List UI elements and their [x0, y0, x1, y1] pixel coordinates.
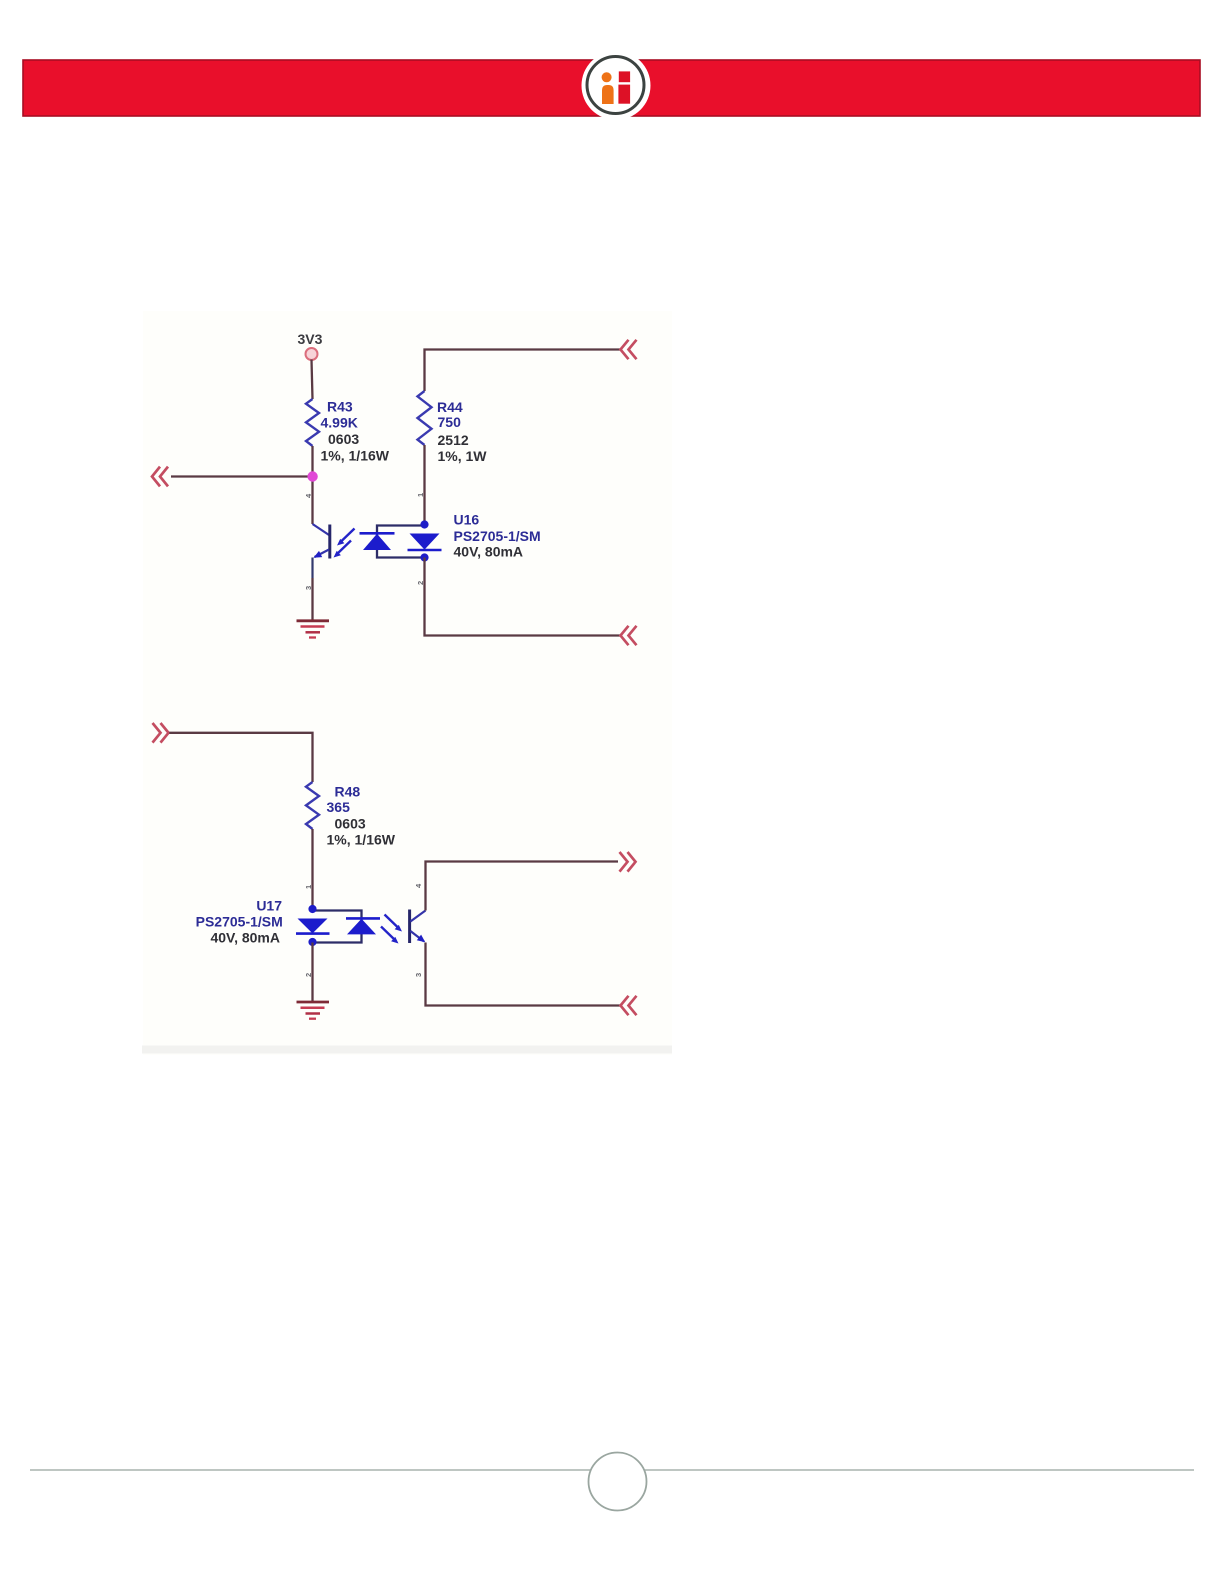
svg-text:2: 2	[304, 973, 313, 977]
svg-text:U16: U16	[454, 512, 480, 528]
svg-text:3: 3	[304, 586, 313, 590]
svg-text:R44: R44	[437, 399, 463, 415]
svg-text:1%, 1/16W: 1%, 1/16W	[327, 832, 396, 848]
svg-text:1: 1	[304, 885, 313, 889]
svg-text:1: 1	[416, 493, 425, 497]
svg-text:0603: 0603	[335, 816, 366, 832]
svg-text:1%, 1W: 1%, 1W	[438, 448, 488, 464]
svg-text:R48: R48	[335, 784, 361, 800]
svg-text:365: 365	[327, 799, 351, 815]
svg-text:3V3: 3V3	[298, 331, 323, 347]
svg-text:PS2705-1/SM: PS2705-1/SM	[454, 528, 541, 544]
svg-text:PS2705-1/SM: PS2705-1/SM	[196, 914, 283, 930]
svg-text:2512: 2512	[438, 432, 469, 448]
svg-text:2: 2	[416, 581, 425, 585]
svg-text:1%, 1/16W: 1%, 1/16W	[321, 447, 390, 463]
svg-text:0603: 0603	[328, 431, 359, 447]
svg-text:3: 3	[414, 973, 423, 977]
svg-text:4.99K: 4.99K	[321, 415, 358, 431]
svg-text:R43: R43	[327, 399, 353, 415]
svg-text:U17: U17	[256, 898, 282, 914]
svg-text:40V, 80mA: 40V, 80mA	[210, 930, 280, 946]
svg-text:40V, 80mA: 40V, 80mA	[454, 544, 524, 560]
svg-text:750: 750	[438, 414, 462, 430]
